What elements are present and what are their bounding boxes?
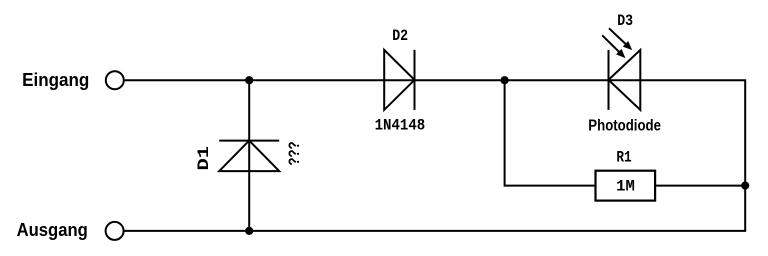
svg-text:D2: D2 — [392, 27, 408, 45]
svg-text:Ausgang: Ausgang — [17, 220, 88, 240]
svg-text:Eingang: Eingang — [22, 70, 89, 90]
svg-text:D3: D3 — [617, 12, 633, 30]
svg-text:R1: R1 — [616, 149, 631, 167]
svg-text:D1: D1 — [195, 146, 213, 171]
svg-text:Photodiode: Photodiode — [588, 117, 661, 134]
svg-text:1N4148: 1N4148 — [375, 116, 426, 134]
svg-text:???: ??? — [286, 141, 304, 165]
svg-text:1M: 1M — [616, 177, 635, 195]
